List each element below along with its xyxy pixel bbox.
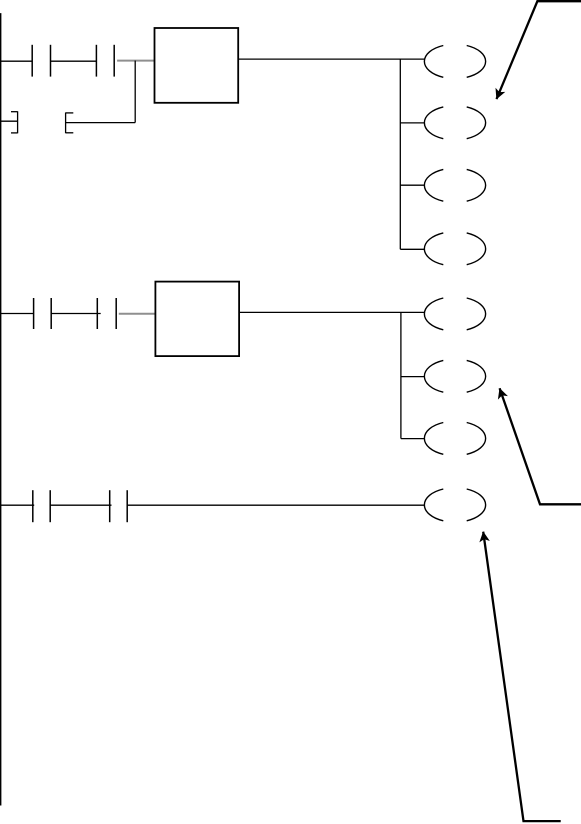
coil 6 bbox=[424, 360, 485, 392]
coil 7 bbox=[424, 423, 485, 455]
wire rung2: contact 2 to function block (grey selected) bbox=[119, 313, 156, 315]
contact 2 (NO) rung1 bbox=[96, 45, 114, 77]
wire rung3: contact 1 to contact 2 bbox=[50, 504, 111, 506]
wire rung1: contact 2 to function block (grey selected) bbox=[117, 60, 155, 62]
wire rung1: contact 1 to contact 2 bbox=[51, 60, 97, 62]
wire rung2: rail to contact 1 bbox=[0, 313, 34, 315]
branch riser rung1 outputs bbox=[399, 59, 401, 249]
wire rung3: contact 2 to coil 8 bbox=[127, 504, 425, 506]
contact 2 (NO) rung2 bbox=[97, 298, 116, 329]
contact 2 (NO) rung3 bbox=[110, 490, 128, 522]
wire rung1: rail to contact 1 bbox=[0, 60, 32, 62]
contact 1 (NO) rung2 bbox=[34, 298, 52, 329]
function block B1 rung1 bbox=[155, 28, 239, 103]
contact 1 (NO) rung3 bbox=[33, 490, 50, 522]
contact 1 (NO) rung1 bbox=[32, 45, 50, 77]
branch wire to coil 3 bbox=[400, 184, 425, 186]
wire rung2: contact 1 to contact 2 bbox=[51, 313, 100, 315]
coil 1 bbox=[424, 46, 485, 78]
branch wire to coil 6 bbox=[401, 376, 425, 378]
parallel branch riser to rung1 bbox=[134, 61, 136, 123]
coil 5 bbox=[424, 298, 485, 330]
annotation arrow 1 (to coil group 1) bbox=[497, 1, 581, 99]
annotation arrow 2 (to coil group 2) bbox=[500, 388, 581, 504]
function block B2 rung2 bbox=[155, 282, 239, 357]
annotation arrow 3 (to coil 8) bbox=[483, 532, 561, 821]
coil 4 bbox=[424, 233, 485, 265]
coil 3 bbox=[424, 169, 485, 201]
half contact [ (right) bbox=[66, 113, 74, 134]
branch wire to coil 7 bbox=[401, 438, 425, 440]
parallel branch stub from rail bbox=[0, 120, 18, 122]
wire rung1: block output to coil 1 bbox=[239, 58, 425, 60]
coil 2 bbox=[424, 107, 485, 139]
half contact ] (left) bbox=[11, 111, 18, 133]
branch wire to coil 2 bbox=[400, 122, 425, 124]
left power rail bbox=[0, 13, 2, 805]
branch wire to coil 4 bbox=[400, 248, 425, 250]
branch riser rung2 outputs bbox=[400, 312, 402, 438]
wire rung3: rail to contact 1 bbox=[0, 504, 34, 506]
wire rung2: block output to coil 5 bbox=[240, 311, 425, 313]
coil 8 bbox=[424, 489, 485, 521]
parallel branch wire bbox=[66, 122, 136, 124]
